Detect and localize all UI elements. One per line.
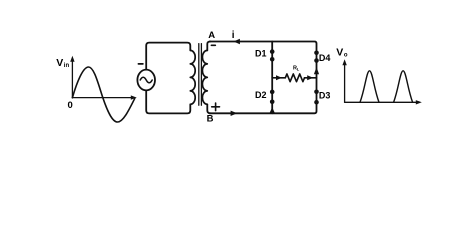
svg-text:0: 0 — [68, 100, 73, 111]
wire secondary to A — [207, 42, 210, 51]
wire Vo rectified hump 1 — [360, 71, 379, 103]
svg-text:V: V — [336, 47, 343, 59]
wire bridge left branch — [271, 42, 273, 114]
node Vin axis vertical — [71, 61, 73, 99]
wire Vo rectified hump 2 — [394, 71, 413, 103]
diode D4 terminal dots — [314, 51, 319, 56]
arrow current up through D2 — [270, 107, 275, 113]
arrow current on bottom rail — [231, 111, 238, 116]
diode D1 terminal dots — [270, 49, 275, 54]
svg-text:B: B — [207, 113, 214, 124]
label minus at node A — [211, 44, 215, 46]
label plus at node B — [212, 106, 220, 108]
svg-text:V: V — [56, 57, 63, 69]
wire top rail A to bridge — [210, 42, 317, 114]
svg-text:L: L — [297, 67, 300, 72]
inductor primary coil — [190, 50, 195, 104]
inductor secondary coil — [202, 50, 207, 104]
svg-text:i: i — [232, 30, 235, 41]
resistor RL zigzag — [285, 74, 304, 82]
node Vo axis vertical — [344, 64, 346, 102]
node Vo axis arrow up — [342, 59, 346, 65]
transformer core — [198, 44, 200, 106]
node Vin axis arrow up — [70, 56, 74, 62]
arrow into resistor — [276, 75, 282, 80]
node Vin axis horizontal — [72, 97, 132, 99]
node Vin axis arrow right — [131, 95, 137, 99]
wire secondary to B — [207, 104, 210, 113]
svg-text:D3: D3 — [319, 91, 331, 101]
wire Vin sine waveform — [72, 67, 134, 122]
source AC V1 circle — [137, 70, 155, 91]
source AC sine symbol — [140, 77, 152, 83]
node Vo axis horizontal — [345, 101, 417, 103]
svg-text:D1: D1 — [255, 48, 267, 58]
label minus at source — [138, 63, 143, 65]
arrow out of resistor — [307, 75, 313, 80]
svg-text:o: o — [344, 53, 348, 59]
wire load branch left — [272, 77, 285, 79]
diode D2 terminal dots — [270, 90, 275, 95]
svg-text:in: in — [64, 63, 70, 69]
node Vo axis arrow right — [416, 100, 422, 104]
wire primary loop — [146, 43, 190, 114]
wire load branch right — [305, 77, 317, 79]
svg-text:D2: D2 — [255, 90, 267, 100]
arrow current i on top rail — [234, 39, 240, 44]
arrow current up through D4 — [314, 67, 319, 74]
svg-text:D4: D4 — [319, 53, 331, 63]
diode D3 terminal dots — [314, 90, 319, 95]
svg-text:A: A — [208, 30, 215, 41]
